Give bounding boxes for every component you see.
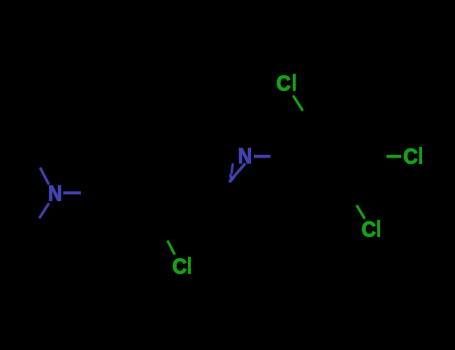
bond: C=N inner line (blue half)	[232, 164, 233, 173]
bond: C=N main line (blue half)	[230, 164, 245, 181]
dimethylamino nitrogen N1 label	[49, 186, 60, 201]
chlorine Cl3 label (right of right ring)	[404, 147, 421, 163]
bond: N2 to right ring (blue half)	[254, 154, 271, 158]
bond: right ring to Cl4 (green half)	[357, 206, 364, 218]
chlorine Cl4 label (bottom of right ring)	[362, 220, 379, 236]
bond: C=N converging wedge tip	[230, 175, 235, 182]
left benzene ring (carbon skeleton, black on black background)	[99, 156, 185, 230]
bond: imine C=N black half	[215, 181, 230, 198]
chlorine Cl2 label (top of right ring)	[277, 74, 295, 90]
bond: right ring to Cl2 (green half)	[294, 97, 303, 110]
right benzene ring (carbon skeleton, black on black background)	[286, 120, 369, 192]
bond: N1 lower methyl (blue half)	[40, 204, 48, 217]
bond: N1 to left ring (blue half)	[63, 191, 81, 195]
bond: right ring to Cl3 (green half)	[387, 154, 402, 158]
bond: left ring to imine carbon CH (black half)	[185, 193, 216, 199]
bond: left ring to Cl1 (green half)	[168, 242, 174, 254]
chlorine Cl1 label (left ring)	[173, 257, 190, 273]
bond: N1 upper methyl (blue half)	[41, 169, 49, 184]
imine nitrogen N2 label	[239, 148, 250, 163]
